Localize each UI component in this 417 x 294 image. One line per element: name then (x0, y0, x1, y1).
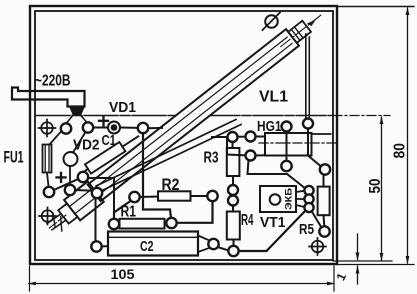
trace through HG1 (286, 132, 288, 161)
lamp tube inner lines (95, 37, 287, 188)
dimension extension line top (337, 6, 414, 8)
lamp bottom crimp (58, 203, 77, 223)
resistor R3 (227, 148, 240, 176)
resistor R5 (318, 187, 330, 216)
pad with double ring (108, 122, 120, 134)
case outline (30, 6, 337, 264)
wire wide trace under lamp upper edge (96, 120, 236, 187)
mounting hole top-left (39, 120, 56, 137)
lamp VL1 (41, 5, 329, 238)
svg-text:VD2: VD2 (73, 137, 100, 154)
lamp top lead double line (305, 34, 307, 119)
svg-text:R2: R2 (162, 175, 180, 194)
plus marks (57, 116, 109, 182)
svg-text:R1: R1 (121, 204, 137, 221)
VT1 base lead (296, 205, 304, 207)
lamp wire end ticks (48, 214, 61, 228)
connector cable 220V (12, 88, 85, 107)
lamp axis dash-dot bottom (49, 215, 66, 228)
capacitor C2 (108, 232, 198, 256)
VT1 collector lead (296, 198, 304, 200)
svg-text:50: 50 (367, 178, 384, 193)
dim 80 (406, 7, 410, 264)
fuse FU1 (43, 145, 52, 173)
svg-text:105: 105 (111, 267, 136, 282)
svg-text:R5: R5 (299, 221, 314, 238)
dimension extension dash-dot 50 (333, 115, 390, 117)
display HG1 (265, 133, 312, 156)
screw (265, 15, 278, 28)
resistor R1 (120, 219, 165, 229)
trace VT1 to R5 bottom (312, 211, 322, 228)
svg-text:ЭКБ: ЭКБ (284, 187, 294, 210)
trace HG1 right to R5 (308, 129, 321, 167)
lamp wires (47, 213, 61, 224)
wire R3 node to HG1 lower-left pad (227, 138, 245, 156)
svg-text:R3: R3 (204, 150, 219, 167)
wire to R3 top pad (212, 136, 227, 138)
lamp axis arrow (307, 18, 317, 27)
wire R2 right pad to R1 right pad (177, 201, 213, 223)
resistor R4 (227, 212, 240, 240)
wire pad row segment 2 (120, 127, 139, 129)
trace bottom to VT1 (239, 211, 306, 252)
lamp tip cap (288, 21, 311, 43)
wire VD2 pad to C2 pad (75, 190, 96, 242)
wire wide trace under lamp lower edge (100, 125, 241, 192)
wire fuse pad to node A (53, 179, 80, 191)
partition line left (36, 115, 176, 117)
svg-text:C1: C1 (102, 133, 117, 149)
mounting hole mid-left (39, 208, 56, 225)
svg-text:VD1: VD1 (109, 99, 136, 116)
wire HG1 lower-left pad to HG1 body (256, 154, 265, 156)
trace HG1 left-bottom to VT1 (248, 160, 305, 188)
mounting hole bottom-right (309, 238, 326, 255)
diode VD2 (64, 152, 78, 166)
wire C1 pad down to R1 right pad (143, 133, 171, 218)
connector wires (67, 115, 74, 123)
resistor R2 (158, 191, 191, 200)
wire R2 left pad to R1 left pad (114, 201, 131, 219)
wire node A to R1 left pad (89, 178, 115, 219)
lamp bottom cap (64, 181, 104, 220)
wire pad row segment 3 (148, 127, 162, 129)
VT1 emitter lead (296, 191, 304, 192)
svg-text:80: 80 (392, 143, 409, 159)
PCB inner outline (35, 11, 333, 260)
partition line right (210, 115, 333, 117)
lamp axis dash-dot top (281, 15, 321, 46)
svg-text:C2: C2 (140, 238, 154, 255)
svg-text:VL1: VL1 (259, 89, 288, 106)
dim 1 (356, 234, 360, 284)
dim 50 (380, 116, 384, 261)
capacitor C1 (79, 132, 141, 178)
transistor VT1 (260, 186, 296, 212)
svg-text:R4: R4 (241, 212, 254, 229)
pads (44, 119, 330, 257)
dimension extension lines bottom (333, 260, 392, 262)
svg-text:~220B: ~220B (35, 73, 71, 90)
dim 105 (28, 282, 335, 286)
svg-text:VT1: VT1 (260, 214, 286, 231)
lamp tube body (88, 29, 299, 201)
wire pad row segment 1 (93, 127, 109, 129)
svg-text:FU1: FU1 (4, 147, 24, 166)
svg-text:HG1: HG1 (257, 119, 282, 135)
wire R3 top pad to HG1 upper-left pad (238, 136, 246, 138)
connector wedge (70, 107, 84, 115)
wire HG1 upper-left pad to HG1 body (256, 136, 265, 138)
